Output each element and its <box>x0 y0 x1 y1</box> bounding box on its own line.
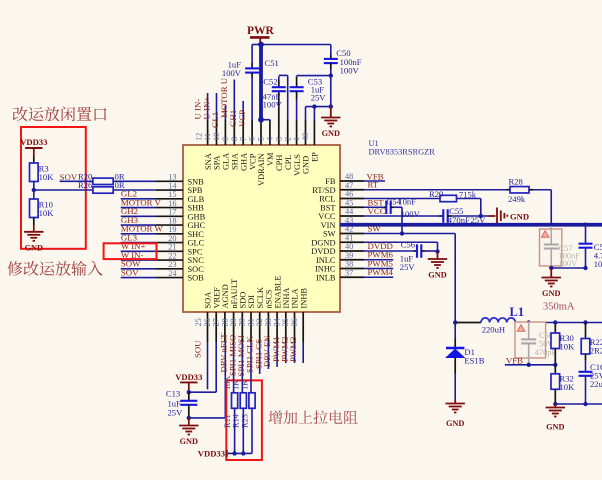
svg-text:C13: C13 <box>166 389 180 399</box>
pin 30 stub <box>250 312 252 342</box>
wire VDRAIN to VM jog <box>261 119 270 121</box>
svg-text:R11: R11 <box>223 414 232 428</box>
wire C50 to GND node <box>330 76 332 107</box>
svg-text:INHB: INHB <box>299 288 308 309</box>
svg-text:INHC: INHC <box>315 265 336 274</box>
svg-text:44: 44 <box>345 207 354 216</box>
inductor L1 left lead <box>455 322 481 324</box>
annotation red box 1 <box>21 127 86 249</box>
pin 20 stub <box>156 242 183 244</box>
svg-text:nFAULT: nFAULT <box>230 279 239 309</box>
svg-text:10nF: 10nF <box>398 196 416 206</box>
svg-text:26: 26 <box>203 318 212 326</box>
capacitor C58 <box>585 227 587 244</box>
capacitor C55 <box>439 215 443 217</box>
inductor L1 <box>481 318 515 323</box>
svg-text:SDO: SDO <box>239 292 248 309</box>
svg-text:SPA: SPA <box>213 155 222 170</box>
wire C56 to GND <box>425 250 438 252</box>
node C16 gnd <box>583 402 587 406</box>
svg-text:GLA: GLA <box>222 153 231 170</box>
node C13 gnd <box>187 416 191 420</box>
svg-text:100V: 100V <box>340 65 360 75</box>
svg-text:12: 12 <box>194 133 203 141</box>
node VDRAIN junction <box>258 117 264 123</box>
wire net PWM3 <box>302 342 304 363</box>
wire net SPI1 MOSI <box>250 342 252 393</box>
pin 32 stub <box>267 312 269 342</box>
wire R3-R10 <box>33 182 35 200</box>
pin 48 stub <box>340 180 364 182</box>
node RCL-GND <box>479 214 483 218</box>
wire PWM5 <box>364 268 393 270</box>
ground GND under C57 <box>550 268 552 278</box>
wire net PWM2 <box>294 342 296 363</box>
svg-text:SW: SW <box>368 224 382 234</box>
wire net W IN+ <box>121 250 156 252</box>
svg-text:GND: GND <box>302 156 311 174</box>
pin 26 stub <box>215 312 217 342</box>
node C60-VFB <box>527 363 531 367</box>
svg-text:27: 27 <box>212 318 221 326</box>
svg-text:SW: SW <box>323 230 336 239</box>
highlight box C60 <box>515 322 546 358</box>
svg-text:37: 37 <box>345 268 353 277</box>
ground GND under D1 <box>454 400 456 404</box>
svg-text:14: 14 <box>168 181 177 190</box>
svg-text:R29: R29 <box>429 189 443 199</box>
svg-text:RT/SD: RT/SD <box>312 186 335 195</box>
svg-text:22: 22 <box>168 251 176 260</box>
svg-text:SHB: SHB <box>188 204 205 213</box>
pin 19 stub <box>156 233 183 235</box>
pin 22 stub <box>156 259 183 261</box>
svg-text:1: 1 <box>292 137 301 141</box>
svg-text:34: 34 <box>273 317 282 326</box>
pin 36 stub <box>302 312 304 342</box>
svg-text:SOA: SOA <box>204 292 213 309</box>
svg-text:1K: 1K <box>240 380 249 390</box>
wire R26 to pin14 <box>113 189 156 191</box>
wire VIN thick <box>340 223 602 227</box>
wire GL1 pin10 <box>224 106 226 121</box>
svg-text:10K: 10K <box>223 376 232 390</box>
svg-text:VCP: VCP <box>248 153 257 170</box>
pin 16 stub <box>156 207 183 209</box>
svg-text:VDD33: VDD33 <box>198 448 225 458</box>
svg-text:18: 18 <box>168 216 176 225</box>
svg-text:45: 45 <box>345 198 353 207</box>
svg-text:GHA: GHA <box>239 153 248 171</box>
svg-text:VM: VM <box>266 152 275 166</box>
svg-text:100V: 100V <box>594 259 602 269</box>
svg-text:SPC: SPC <box>188 247 203 256</box>
svg-text:SOV: SOV <box>121 267 139 277</box>
wire VCP down <box>251 78 253 121</box>
pin 12 stub <box>207 120 209 145</box>
pin 5 stub <box>269 120 271 145</box>
svg-text:25V: 25V <box>311 92 327 102</box>
pin 4 stub <box>278 120 280 145</box>
svg-text:GND: GND <box>322 129 340 138</box>
svg-text:FB: FB <box>325 177 336 186</box>
svg-text:17: 17 <box>168 208 176 217</box>
pin 39 stub <box>340 259 364 261</box>
svg-text:L1: L1 <box>510 305 525 319</box>
pin 17 stub <box>156 215 183 217</box>
svg-text:46: 46 <box>345 190 353 199</box>
pin 23 stub <box>156 268 183 270</box>
wire divider to R26 <box>34 189 93 191</box>
svg-text:24: 24 <box>168 269 177 278</box>
wire VFB feedback <box>505 364 556 366</box>
svg-text:R23: R23 <box>240 414 249 428</box>
pin 44 stub <box>340 215 364 217</box>
capacitor C57 greyed <box>550 226 552 245</box>
node VIN-C58 <box>583 223 587 227</box>
capacitor C50 <box>330 55 332 59</box>
svg-text:SCLK: SCLK <box>256 287 265 308</box>
pin EP stub <box>313 120 315 145</box>
svg-text:7: 7 <box>239 137 248 141</box>
svg-text:15: 15 <box>168 190 176 199</box>
wire R28 to VIN <box>533 189 551 191</box>
resistor R10 <box>30 199 39 218</box>
node rail-R22 <box>583 320 587 324</box>
svg-text:SNA: SNA <box>204 153 213 170</box>
svg-text:VDD33: VDD33 <box>175 372 202 382</box>
node BST-SW <box>400 231 404 235</box>
capacitor C16 <box>585 360 587 372</box>
svg-text:GLB: GLB <box>188 195 205 204</box>
node R32 gnd <box>553 402 557 406</box>
capacitor C60 greyed <box>528 323 530 340</box>
pin 34 stub <box>285 312 287 342</box>
svg-text:ES1B: ES1B <box>464 356 484 366</box>
svg-text:100V: 100V <box>222 68 242 78</box>
wire bottom gnd rail <box>555 403 602 405</box>
pin 42 stub <box>340 233 364 235</box>
svg-text:GHB: GHB <box>188 212 206 221</box>
diode D1 <box>454 323 456 339</box>
power port VDD33 bottom <box>180 381 197 383</box>
capacitor C51 <box>251 63 253 68</box>
svg-text:INHA: INHA <box>282 288 291 309</box>
ground GND under C13 <box>188 418 190 426</box>
wire U IN+ pin11 <box>216 93 218 121</box>
svg-text:INLA: INLA <box>291 288 300 308</box>
resistor R32 <box>554 365 556 374</box>
svg-text:CPL: CPL <box>284 155 293 170</box>
svg-text:48: 48 <box>345 172 353 181</box>
annotation text top-left <box>13 107 28 122</box>
wire thick VDRAIN drop <box>259 45 263 120</box>
svg-text:PWM3: PWM3 <box>288 336 298 362</box>
svg-text:350mA: 350mA <box>543 302 575 313</box>
wire net SOW <box>121 268 156 270</box>
ground GND sideways <box>489 215 496 217</box>
node C60 tap <box>527 320 531 324</box>
pin 24 stub <box>156 277 183 279</box>
svg-text:EP: EP <box>311 152 320 162</box>
marker triangle C60 <box>517 325 525 332</box>
svg-text:C52: C52 <box>263 77 277 87</box>
wire C54 to SW <box>394 206 403 208</box>
svg-text:GND: GND <box>180 437 198 446</box>
wire RT to R28 <box>364 189 507 191</box>
svg-text:DVDD: DVDD <box>311 247 335 256</box>
svg-text:25V: 25V <box>400 262 416 272</box>
pin 11 stub <box>216 120 218 145</box>
node C50-C53 <box>329 73 333 77</box>
svg-text:40: 40 <box>345 242 353 251</box>
capacitor C54 <box>384 206 386 208</box>
svg-text:SOC: SOC <box>188 265 205 274</box>
svg-text:2R2: 2R2 <box>590 346 602 356</box>
ground GND left <box>33 225 35 232</box>
wire SW <box>364 233 455 235</box>
svg-text:100V: 100V <box>263 99 283 109</box>
capacitor C52 <box>272 86 286 88</box>
svg-text:GND: GND <box>428 271 446 280</box>
wire net GL3 <box>121 242 156 244</box>
wire AGND tie <box>189 417 226 419</box>
wire SOU <box>207 342 209 389</box>
svg-text:C51: C51 <box>265 58 279 68</box>
svg-text:GND: GND <box>446 419 464 428</box>
wire L1 to output rail <box>529 322 602 324</box>
wire net MOTOR V <box>121 207 156 209</box>
svg-text:5: 5 <box>257 137 266 141</box>
svg-text:VCC: VCC <box>368 206 386 216</box>
resistor R28 <box>507 189 511 191</box>
svg-text:39: 39 <box>345 251 353 260</box>
pin 18 stub <box>156 224 183 226</box>
ground GND mid <box>437 252 439 260</box>
svg-text:10K: 10K <box>39 208 55 218</box>
pin 27 stub <box>224 312 226 342</box>
annotation red box 3 <box>226 380 262 460</box>
pin 46 stub <box>340 198 364 200</box>
pin 8 stub <box>242 120 244 145</box>
svg-text:C56: C56 <box>401 239 416 249</box>
svg-text:SHA: SHA <box>231 153 240 170</box>
svg-text:CPH: CPH <box>275 155 284 171</box>
wire SOV <box>60 180 93 182</box>
svg-text:25V: 25V <box>168 408 184 418</box>
annotation text pullup <box>269 410 283 424</box>
svg-text:1K: 1K <box>232 380 241 390</box>
pin 2 stub <box>296 120 298 145</box>
svg-text:SOU: SOU <box>193 340 203 358</box>
svg-text:nSCS: nSCS <box>265 289 274 308</box>
svg-text:SNB: SNB <box>188 177 205 186</box>
svg-text:19: 19 <box>168 225 176 234</box>
wire net DRV EN <box>276 342 278 367</box>
resistor R30 <box>554 323 556 334</box>
resistor R14 <box>240 393 246 409</box>
svg-text:29: 29 <box>229 318 238 326</box>
wire gnd rail right <box>551 267 585 269</box>
wire net SOV <box>121 277 156 279</box>
resistor R23 <box>249 393 255 409</box>
svg-text:PWM4: PWM4 <box>368 267 394 277</box>
svg-text:13: 13 <box>168 173 176 182</box>
node SW-L1-D1 <box>453 320 457 324</box>
pin 9 stub <box>233 120 235 145</box>
svg-text:47: 47 <box>345 181 353 190</box>
wire net GH2 <box>121 215 156 217</box>
wire net SPI1 MISO <box>241 342 243 393</box>
node GND rail <box>329 104 333 108</box>
pin 41 stub <box>340 241 364 243</box>
pin 14 stub <box>156 189 183 191</box>
svg-text:SPB: SPB <box>188 186 203 195</box>
svg-text:R28: R28 <box>509 176 523 186</box>
pin 29 stub <box>241 312 243 342</box>
svg-text:SNC: SNC <box>188 256 205 265</box>
highlight box C57 <box>540 229 562 266</box>
svg-text:VDD33: VDD33 <box>20 137 47 147</box>
node rail-R30 <box>553 320 557 324</box>
svg-text:VGLS: VGLS <box>293 154 302 176</box>
svg-text:25: 25 <box>194 318 203 326</box>
svg-text:22uF: 22uF <box>590 379 602 389</box>
svg-text:8: 8 <box>230 137 239 141</box>
wire CPH riser <box>278 76 280 80</box>
pin 3 stub <box>287 120 289 145</box>
wire net GH3 <box>121 224 156 226</box>
wire CPH-CPL bridge <box>279 74 288 76</box>
svg-text:SOB: SOB <box>188 274 205 283</box>
svg-text:249k: 249k <box>508 194 526 204</box>
svg-text:INLC: INLC <box>316 256 336 265</box>
svg-text:AGND: AGND <box>221 284 230 308</box>
svg-text:GND: GND <box>542 289 560 298</box>
node PWR junction <box>258 42 264 48</box>
wire net W IN- <box>121 259 156 261</box>
node pullup2 <box>241 451 245 455</box>
wire GH1 pin8 <box>242 101 244 121</box>
svg-text:RT: RT <box>368 180 379 190</box>
svg-text:SDI: SDI <box>247 295 256 309</box>
pin 25 stub <box>207 312 209 342</box>
svg-text:21: 21 <box>168 243 176 252</box>
wire U IN- pin12 <box>207 93 209 121</box>
svg-text:10: 10 <box>212 133 221 141</box>
wire PWM4 <box>364 276 393 278</box>
pin 15 stub <box>156 198 183 200</box>
wire BST <box>364 206 384 208</box>
node C57 gnd <box>549 266 553 270</box>
pin 28 stub <box>233 312 235 342</box>
pin 33 stub <box>276 312 278 342</box>
wire VFB <box>364 180 385 182</box>
svg-text:20: 20 <box>168 234 176 243</box>
node VDD33-C13 <box>187 390 191 394</box>
resistor R22 <box>585 323 587 339</box>
svg-text:41: 41 <box>345 233 353 242</box>
pin 45 stub <box>340 206 364 208</box>
wire net MOTOR W <box>121 233 156 235</box>
pin 1 stub <box>305 120 307 145</box>
ground GND bottom right <box>554 404 556 408</box>
annotation red box 2 <box>104 243 157 259</box>
wire net DRV nFLT <box>233 342 235 393</box>
wire RCL <box>364 198 440 200</box>
svg-text:PWR: PWR <box>247 25 275 37</box>
wire VCC <box>364 215 439 217</box>
pin 21 stub <box>156 250 183 252</box>
pin 10 stub <box>224 120 226 145</box>
resistor R11 <box>232 393 238 409</box>
svg-text:10K: 10K <box>560 382 576 392</box>
svg-text:2: 2 <box>283 137 292 141</box>
wire net GL2 <box>121 198 156 200</box>
wire C55 to GND <box>452 215 489 217</box>
svg-text:28: 28 <box>220 318 229 326</box>
svg-text:35: 35 <box>281 318 290 326</box>
resistor R20 <box>93 178 113 184</box>
node divider <box>32 188 36 192</box>
svg-text:23: 23 <box>168 260 176 269</box>
pin 38 stub <box>340 268 364 270</box>
capacitor C53 <box>296 77 298 88</box>
wire VCP branch <box>252 44 261 46</box>
svg-text:DRV8353RSRGZR: DRV8353RSRGZR <box>369 148 436 157</box>
annotation text bottom-left <box>8 261 23 276</box>
svg-text:3: 3 <box>274 137 283 141</box>
svg-text:INLB: INLB <box>316 273 336 282</box>
capacitor C56 <box>413 250 417 252</box>
pin 31 stub <box>259 312 261 342</box>
wire GND pin1 riser <box>305 107 307 121</box>
resistor R26 <box>93 187 113 193</box>
wire EP riser <box>313 107 315 121</box>
pin 37 stub <box>340 276 364 278</box>
node pullup1 <box>232 451 236 455</box>
pin 6 stub <box>260 120 262 145</box>
IC U1 DRV8353RSRGZR body <box>183 145 340 312</box>
svg-text:31: 31 <box>246 318 255 326</box>
power port VDD33 top-left <box>25 147 42 149</box>
wire C50 stem bottom <box>330 69 332 76</box>
svg-text:BST: BST <box>320 203 335 212</box>
resistor R3 <box>33 156 35 163</box>
pin 7 stub <box>251 120 253 145</box>
svg-text:VIN: VIN <box>321 221 336 230</box>
wire pullup rail <box>228 452 252 454</box>
wire net SPI1 CS <box>267 342 269 369</box>
wire R20 to pin13 <box>113 180 156 182</box>
wire net PWM1 <box>285 342 287 363</box>
svg-text:GLC: GLC <box>188 239 205 248</box>
svg-text:11: 11 <box>203 133 212 141</box>
wire PWR to C50 <box>261 44 331 46</box>
svg-text:ENABLE: ENABLE <box>273 275 282 308</box>
svg-text:R26: R26 <box>78 180 93 190</box>
node DGND-C56 <box>435 249 439 253</box>
svg-text:R14: R14 <box>232 413 241 428</box>
svg-text:32: 32 <box>255 318 264 326</box>
svg-text:10K: 10K <box>39 172 55 182</box>
svg-text:VCP: VCP <box>237 110 247 127</box>
svg-text:RCL: RCL <box>319 195 335 204</box>
wire VREF to VDD33 <box>215 342 217 392</box>
svg-text:33: 33 <box>264 318 273 326</box>
pin 35 stub <box>294 312 296 342</box>
svg-text:16: 16 <box>168 199 176 208</box>
